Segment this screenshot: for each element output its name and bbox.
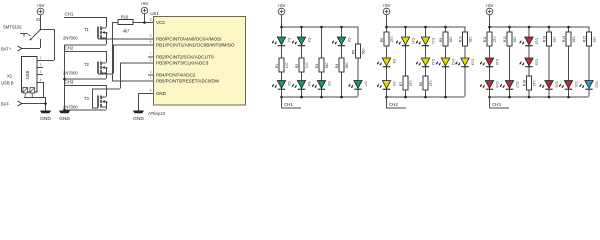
svg-text:R12: R12 <box>503 36 507 42</box>
LED D15 <box>480 81 499 90</box>
svg-text:GND: GND <box>133 116 144 122</box>
resistor R2 100 <box>295 58 309 72</box>
svg-text:CH1: CH1 <box>284 102 293 107</box>
+5V supply symbol <box>141 1 149 14</box>
LED D10 <box>396 37 415 46</box>
resistor R3 560 <box>315 58 329 72</box>
resistor R6 270 <box>380 32 394 46</box>
pin 3 D+ <box>37 70 43 75</box>
LED D2 <box>272 81 291 90</box>
switch S1 SMTS102 <box>3 17 42 40</box>
wire shield ground rail <box>24 97 45 99</box>
svg-text:GND: GND <box>59 116 70 122</box>
svg-text:+5V: +5V <box>278 3 286 8</box>
LED D4 <box>292 81 311 90</box>
resistor R7 270 <box>399 76 413 90</box>
svg-text:D8: D8 <box>392 59 396 63</box>
svg-text:620: 620 <box>469 36 473 42</box>
LED D16 <box>480 58 499 67</box>
resistor R1 100 <box>275 58 289 72</box>
junction <box>528 96 531 99</box>
wire bottom rail CH2 <box>386 96 465 98</box>
resistor R10 620 <box>458 32 472 46</box>
junction <box>508 26 511 29</box>
wire column CH3.5 <box>568 27 570 97</box>
svg-text:620: 620 <box>572 36 576 42</box>
wire T2 gate to PB1 pin 6 <box>98 73 113 75</box>
svg-text:R6: R6 <box>380 38 384 42</box>
node CH1 net label <box>281 97 301 109</box>
LED D11 <box>416 37 435 46</box>
resistor R15 620 <box>582 32 596 46</box>
svg-text:R13: R13 <box>542 36 546 42</box>
svg-text:CH1: CH1 <box>65 12 74 17</box>
svg-text:D20: D20 <box>554 82 558 88</box>
svg-text:3: 3 <box>150 70 152 74</box>
svg-text:R8: R8 <box>419 82 423 86</box>
junction <box>444 96 447 99</box>
svg-text:D22: D22 <box>594 82 598 88</box>
LED D6 <box>332 37 351 46</box>
IC US1 ATtiny13 <box>148 11 246 116</box>
svg-text:D19: D19 <box>534 38 538 44</box>
node BAT- terminal <box>1 101 45 107</box>
node CH3 net label <box>489 97 509 109</box>
svg-text:D1: D1 <box>287 38 291 42</box>
resistor R9 620 <box>439 32 453 46</box>
junction <box>404 26 407 29</box>
wire +5V tap to USB VBUS <box>40 29 54 31</box>
svg-text:2N7000: 2N7000 <box>63 105 78 110</box>
wire T1 gate to PB0 pin 5 <box>98 38 154 40</box>
junction <box>320 26 323 29</box>
+5V supply symbol <box>486 3 494 15</box>
junction <box>280 96 283 99</box>
svg-text:PB2/PCINT2/SCK/ADC1/T0: PB2/PCINT2/SCK/ADC1/T0 <box>156 55 214 60</box>
wire column CH3.3 <box>528 27 530 97</box>
svg-text:270: 270 <box>533 80 537 86</box>
svg-text:R15: R15 <box>582 36 586 42</box>
svg-text:R2: R2 <box>295 64 299 68</box>
resistor R18 270 <box>522 76 536 90</box>
svg-text:4: 4 <box>40 78 42 82</box>
wire T3 gate to PB3 pin 2 <box>92 107 98 109</box>
svg-text:D5: D5 <box>327 82 331 86</box>
pin 1 PB5 <box>150 76 220 83</box>
pin 2 D- <box>37 63 43 68</box>
pin 1 VBUS <box>37 56 54 61</box>
wire column CH1.2 <box>301 27 303 97</box>
wire column CH3.1 <box>489 27 491 97</box>
pin 7 PB2 <box>148 52 214 59</box>
wire top rail CH2 <box>386 26 465 28</box>
wire top rail CH1 <box>281 26 358 28</box>
svg-text:560: 560 <box>325 62 329 68</box>
svg-text:R9: R9 <box>439 38 443 42</box>
wire column CH2.3 <box>425 27 427 97</box>
wire T1 drain to CH1 <box>106 17 108 28</box>
svg-text:R10: R10 <box>458 36 462 42</box>
LED D13 <box>436 58 455 67</box>
shield pads <box>23 88 35 98</box>
svg-text:D21: D21 <box>574 82 578 88</box>
pin 5 PB0 <box>150 34 222 41</box>
junction <box>548 26 551 29</box>
+5V supply symbol <box>383 3 391 15</box>
svg-text:620: 620 <box>449 36 453 42</box>
junction <box>143 21 146 24</box>
svg-text:1: 1 <box>40 56 42 60</box>
LED D12 <box>416 58 435 67</box>
svg-text:7: 7 <box>150 52 152 56</box>
pin 8 VCC <box>150 18 166 25</box>
wire T3 source to ground rail <box>106 107 108 110</box>
svg-text:D2: D2 <box>287 82 291 86</box>
ground (USB/battery) <box>40 111 51 123</box>
resistor R4 560 <box>335 58 349 72</box>
svg-text:CH2: CH2 <box>389 102 398 107</box>
LED D19 <box>520 37 539 46</box>
resistor R14 620 <box>562 32 576 46</box>
pin 4 GND <box>150 89 166 96</box>
svg-text:270: 270 <box>390 36 394 42</box>
wire +5V to switch <box>40 15 42 29</box>
svg-text:8: 8 <box>150 18 152 22</box>
junction <box>63 109 66 112</box>
svg-text:X1: X1 <box>7 74 13 79</box>
junction <box>444 26 447 29</box>
pin 2 PB3 <box>150 58 209 65</box>
junction <box>404 96 407 99</box>
svg-text:GND: GND <box>156 91 166 96</box>
svg-text:PB5/PCINT5/RESET/ADC0/DW: PB5/PCINT5/RESET/ADC0/DW <box>156 79 220 84</box>
wire ground rail of transistors <box>64 45 66 111</box>
svg-text:560: 560 <box>362 48 366 54</box>
wire T3 drain to CH3 <box>106 85 108 97</box>
svg-text:PB0/PCINT0/AIN0/OC0A/MOSI: PB0/PCINT0/AIN0/OC0A/MOSI <box>156 37 222 42</box>
wire R16 to PB5 RESET pin 1 <box>112 22 118 24</box>
wire column CH2.5 <box>464 27 466 97</box>
svg-text:R4: R4 <box>335 64 339 68</box>
svg-text:BAT-: BAT- <box>1 102 11 107</box>
junction <box>488 26 491 29</box>
svg-text:T2: T2 <box>84 62 90 67</box>
wire T2 drain to CH2 <box>106 51 108 63</box>
svg-text:2N7000: 2N7000 <box>63 71 78 76</box>
LED D7 <box>349 81 368 90</box>
svg-text:620: 620 <box>553 36 557 42</box>
svg-text:CH3: CH3 <box>65 80 74 85</box>
junction <box>385 26 388 29</box>
svg-text:D18: D18 <box>534 59 538 65</box>
svg-text:D3: D3 <box>307 38 311 42</box>
LED D21 <box>559 81 578 90</box>
svg-text:R7: R7 <box>399 82 403 86</box>
svg-text:VCC: VCC <box>156 20 165 25</box>
wire column CH1.5 <box>357 27 359 97</box>
svg-text:270: 270 <box>429 80 433 86</box>
transistor T3 2N7000 <box>63 96 107 110</box>
wire bottom rail CH3 <box>489 96 589 98</box>
junction <box>567 96 570 99</box>
svg-text:CH2: CH2 <box>65 46 74 51</box>
svg-text:PB4/PCINT4/ADC2: PB4/PCINT4/ADC2 <box>156 73 196 78</box>
svg-text:BAT+: BAT+ <box>1 47 12 52</box>
+5V supply symbol <box>278 3 286 15</box>
wire GND pin 4 to ground <box>138 93 154 95</box>
LED D14 <box>456 58 475 67</box>
svg-text:+5V: +5V <box>486 3 494 8</box>
resistor R12 620 <box>503 32 517 46</box>
svg-text:R16: R16 <box>121 14 129 19</box>
svg-text:US1: US1 <box>151 11 160 16</box>
svg-text:PB1/PCINT1/AIN1/OC0B/INT0/MISO: PB1/PCINT1/AIN1/OC0B/INT0/MISO <box>156 43 235 48</box>
svg-text:R18: R18 <box>522 80 526 86</box>
resistor R8 270 <box>419 76 433 90</box>
svg-text:R5: R5 <box>351 50 355 54</box>
wire pin4 to ground rail <box>43 82 45 97</box>
junction <box>424 26 427 29</box>
svg-text:GND: GND <box>40 116 51 122</box>
svg-text:D14: D14 <box>470 59 474 65</box>
svg-text:USB: USB <box>25 71 30 80</box>
svg-text:PB3/PCINT3/CLKI/ADC3: PB3/PCINT3/CLKI/ADC3 <box>156 61 209 66</box>
wire switch to BAT+ <box>40 39 42 48</box>
svg-text:270: 270 <box>493 36 497 42</box>
svg-text:3: 3 <box>40 70 42 74</box>
svg-text:T3: T3 <box>84 96 90 101</box>
svg-text:100: 100 <box>305 62 309 68</box>
svg-text:CH3: CH3 <box>492 102 501 107</box>
svg-text:D7: D7 <box>363 82 367 86</box>
wire column CH2.1 <box>386 27 388 97</box>
wire column CH1.1 <box>281 27 283 97</box>
junction <box>567 26 570 29</box>
svg-text:D17: D17 <box>515 82 519 88</box>
node CH2 net label <box>386 97 406 109</box>
junction <box>508 96 511 99</box>
svg-text:D10: D10 <box>411 38 415 44</box>
node CH2 net label <box>64 46 106 52</box>
LED D8 <box>377 58 396 67</box>
LED D20 <box>540 81 559 90</box>
junction <box>300 26 303 29</box>
transistor T2 2N7000 <box>63 62 107 76</box>
svg-text:R3: R3 <box>315 64 319 68</box>
svg-text:D12: D12 <box>431 59 435 65</box>
svg-text:R14: R14 <box>562 36 566 42</box>
wire column CH3.4 <box>548 27 550 97</box>
junction <box>424 96 427 99</box>
svg-text:2: 2 <box>150 58 152 62</box>
resistor R13 620 <box>542 32 556 46</box>
transistor T1 2N7000 <box>63 27 107 41</box>
wire column CH2.2 <box>405 27 407 97</box>
svg-text:100: 100 <box>285 62 289 68</box>
svg-text:D9: D9 <box>392 82 396 86</box>
LED D5 <box>312 81 331 90</box>
svg-text:2: 2 <box>40 63 42 67</box>
svg-text:620: 620 <box>513 36 517 42</box>
junction <box>280 26 283 29</box>
resistor R11 270 <box>483 32 497 46</box>
svg-text:560: 560 <box>345 62 349 68</box>
svg-text:S1: S1 <box>36 17 42 22</box>
LED D9 <box>377 81 396 90</box>
svg-text:USB B: USB B <box>1 81 14 86</box>
LED D22 <box>580 81 599 90</box>
junction <box>340 26 343 29</box>
svg-text:1: 1 <box>150 76 152 80</box>
svg-text:6: 6 <box>150 40 152 44</box>
svg-text:+5V: +5V <box>383 3 391 8</box>
junction <box>44 102 47 105</box>
node BAT+ terminal <box>1 46 40 52</box>
junction <box>488 96 491 99</box>
resistor R5 560 <box>351 44 365 58</box>
LED D1 <box>272 37 291 46</box>
wire +5V to VCC pin 8 <box>144 14 146 22</box>
wire column CH1.3 <box>321 27 323 97</box>
svg-text:D11: D11 <box>431 38 435 44</box>
wire column CH2.4 <box>445 27 447 97</box>
svg-text:SMTS102: SMTS102 <box>3 25 22 30</box>
connector X1 USB B <box>1 57 37 93</box>
wire T1 source to ground rail <box>106 38 108 45</box>
wire bottom rail CH1 <box>281 96 358 98</box>
pin 4 GND <box>37 78 43 83</box>
resistor R16 4k7 <box>118 14 133 33</box>
wire column CH3.6 <box>588 27 590 97</box>
pin 3 PB4 <box>148 70 196 77</box>
junction <box>385 96 388 99</box>
wire top rail CH3 <box>489 26 589 28</box>
svg-text:5: 5 <box>150 34 152 38</box>
ground (transistors) <box>59 111 70 123</box>
svg-text:4: 4 <box>150 89 152 93</box>
junction <box>300 96 303 99</box>
svg-text:D16: D16 <box>495 59 499 65</box>
wire column CH3.2 <box>509 27 511 97</box>
svg-text:D15: D15 <box>495 82 499 88</box>
svg-text:+5V: +5V <box>141 1 149 6</box>
LED D17 <box>500 81 519 90</box>
node CH1 net label <box>64 12 106 18</box>
svg-text:270: 270 <box>409 80 413 86</box>
svg-text:4k7: 4k7 <box>123 28 130 33</box>
junction <box>528 26 531 29</box>
junction <box>340 96 343 99</box>
junction <box>63 78 66 81</box>
svg-text:R11: R11 <box>483 36 487 42</box>
wire T2 source to ground rail <box>106 73 108 79</box>
LED D3 <box>292 37 311 46</box>
wire to left ground <box>45 97 47 111</box>
node CH3 net label <box>64 80 106 86</box>
svg-text:2N7000: 2N7000 <box>63 36 78 41</box>
svg-text:D4: D4 <box>307 82 311 86</box>
junction <box>320 96 323 99</box>
svg-text:R1: R1 <box>275 64 279 68</box>
+5V supply symbol <box>37 3 45 15</box>
svg-text:T1: T1 <box>84 27 90 32</box>
ground (IC1) <box>133 111 144 123</box>
svg-text:ATtiny13: ATtiny13 <box>148 111 166 116</box>
svg-text:D13: D13 <box>451 59 455 65</box>
wire column CH1.4 <box>341 27 343 97</box>
svg-text:620: 620 <box>593 36 597 42</box>
pin 6 PB1 <box>150 40 236 47</box>
junction <box>548 96 551 99</box>
LED D18 <box>520 58 539 67</box>
svg-text:D6: D6 <box>347 38 351 42</box>
wire R16 to +5V <box>133 22 144 24</box>
svg-text:+5V: +5V <box>37 3 45 8</box>
